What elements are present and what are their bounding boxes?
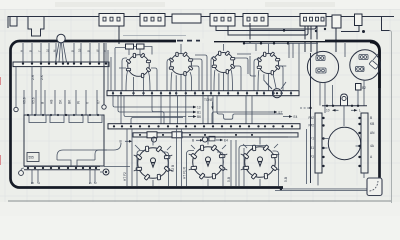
twin vertical wires to strip B xyxy=(108,50,111,91)
resistor R-a above V1 xyxy=(126,44,134,49)
long wire right of V4 xyxy=(298,43,300,90)
apron cutout 1 xyxy=(10,17,17,27)
wire from empty box down xyxy=(249,29,251,43)
lamp bracket b xyxy=(209,136,215,141)
tube socket V1 (7-pin) xyxy=(126,53,151,78)
lead fan through grommet xyxy=(56,43,67,63)
wire C2 to edge xyxy=(373,54,378,60)
bottom terminal strip E xyxy=(24,165,100,167)
label L arrow xyxy=(351,109,361,113)
wire across resistors xyxy=(115,47,152,55)
lamp mounting line xyxy=(322,105,367,107)
hookup wire curl b xyxy=(95,150,107,160)
lamp line dots xyxy=(326,105,359,107)
fuse post lead with dot xyxy=(341,26,359,32)
svg-text:5-B: 5-B xyxy=(284,177,288,182)
C1 terminal block a xyxy=(316,56,325,61)
wire hoop around V5 xyxy=(137,151,169,187)
V3-V4 link wires xyxy=(234,54,251,74)
small connector box right xyxy=(332,15,341,28)
octal socket V7 xyxy=(241,145,280,179)
svg-text:HB: HB xyxy=(50,100,54,104)
svg-text:B: B xyxy=(70,50,74,52)
svg-text:B: B xyxy=(192,139,194,143)
arrow label E7 xyxy=(268,111,283,115)
svg-text:AN: AN xyxy=(370,131,375,135)
grommet bottom-left xyxy=(19,171,24,176)
wire lamp line up to C1 xyxy=(332,85,334,106)
svg-text:10: 10 xyxy=(326,109,330,113)
V4 extra drops xyxy=(258,70,269,91)
hookup wire across with U-dip xyxy=(57,160,95,167)
tube socket V3 (7-pin) xyxy=(212,51,235,74)
svg-text:V7: V7 xyxy=(97,100,101,104)
labels B/KB/AN/A xyxy=(370,116,375,159)
bar D pilot circle a xyxy=(151,137,156,142)
C2 terminal diag xyxy=(369,60,378,69)
V2 extra drops xyxy=(171,72,192,91)
arrow label B left of V5 xyxy=(120,140,133,144)
svg-text:B: B xyxy=(120,140,122,144)
terminal box TB4 with 3 lugs xyxy=(243,14,268,27)
svg-text:E4: E4 xyxy=(294,115,298,119)
strip A lug dots xyxy=(22,62,107,64)
svg-text:B1: B1 xyxy=(310,146,314,150)
filter can C2 xyxy=(350,50,380,80)
terminal strip A xyxy=(13,62,109,67)
junction dot right feed xyxy=(309,107,311,109)
terminal box TB2 with 3 lugs xyxy=(140,14,165,27)
wafer tab 3 xyxy=(69,115,83,123)
svg-text:F#2: F#2 xyxy=(309,124,315,128)
C1 terminal block b xyxy=(316,68,326,73)
pilot lamp bulb xyxy=(342,96,346,100)
wire runs between strips B and C xyxy=(113,96,213,127)
faint inner wire above V2 xyxy=(123,35,186,37)
wafer tab 2 xyxy=(50,115,64,123)
svg-text:F#2: F#2 xyxy=(309,116,315,120)
bar D mount rect a xyxy=(147,132,157,138)
strip E lug dots xyxy=(27,167,97,169)
output strip left dots xyxy=(322,117,324,167)
junction dot bus A xyxy=(283,29,285,31)
wire between cans xyxy=(344,43,346,57)
wire block to V5 xyxy=(104,166,130,168)
svg-text:B1: B1 xyxy=(197,111,201,115)
arrow label 13 xyxy=(188,106,201,110)
svg-text:5: 5 xyxy=(89,182,93,184)
output strip right xyxy=(361,113,368,173)
wafer tab 4 xyxy=(88,115,102,123)
long wires strip A down to switch block xyxy=(32,67,41,115)
tone pointer xyxy=(212,102,214,110)
V7 lead wires xyxy=(243,137,278,186)
dashed jumper at right strip xyxy=(300,107,310,109)
V3 extra drops xyxy=(214,70,233,91)
cable grommet on top edge xyxy=(57,34,65,42)
V2 pin wires xyxy=(176,44,199,91)
wire lamp line to speaker xyxy=(343,106,345,126)
bar D dots xyxy=(139,134,253,136)
svg-text:W: W xyxy=(77,101,81,104)
svg-text:B6: B6 xyxy=(197,115,201,119)
long wire to corner box xyxy=(275,190,367,192)
tone pointer head xyxy=(211,107,213,110)
wires from TB5 lugs down xyxy=(305,26,317,55)
strip B wire ticks xyxy=(113,91,291,96)
label 10 arrow xyxy=(326,109,339,113)
chassis outline (rounded) xyxy=(11,41,380,188)
grommet with ring right of strip E xyxy=(100,169,109,175)
svg-text:E4: E4 xyxy=(224,138,228,142)
grommet left xyxy=(14,107,18,111)
svg-text:A: A xyxy=(19,50,23,52)
hookup wire loop from right xyxy=(57,143,121,160)
svg-text:KB: KB xyxy=(370,122,374,126)
svg-text:B: B xyxy=(370,116,372,120)
tube socket V4 (7-pin) xyxy=(257,52,280,75)
svg-text:13: 13 xyxy=(197,106,201,110)
output strip left xyxy=(315,113,322,173)
bottom edge junction dot xyxy=(280,188,283,191)
strip C lug dots xyxy=(113,125,293,127)
arrow label B1 xyxy=(188,111,201,115)
destination stub wires above block xyxy=(24,90,97,115)
edge remnant dashes xyxy=(177,40,200,42)
octal socket V5 xyxy=(134,146,173,180)
arrow label E4 above V6 xyxy=(216,138,228,142)
svg-text:555: 555 xyxy=(29,156,35,160)
strip C wire ticks xyxy=(114,124,292,129)
heater pair wires V5-V6 xyxy=(177,129,182,186)
V3 pin wires xyxy=(219,44,241,91)
arrow label B above V6 xyxy=(192,139,203,143)
junction dot bus C xyxy=(324,28,326,30)
bus wire upper run xyxy=(250,23,316,29)
apron cutout 2 (stepped) xyxy=(28,17,44,37)
V1 area vertical wire xyxy=(114,48,116,91)
V2 hoop wire xyxy=(167,59,172,91)
wire B2 down xyxy=(357,90,359,105)
wires V6-V7 gap xyxy=(231,140,236,186)
svg-text:5-B: 5-B xyxy=(227,177,231,182)
dial lamp bar D xyxy=(133,133,298,137)
svg-text:R2 B: R2 B xyxy=(171,165,175,172)
svg-text:B2: B2 xyxy=(362,86,366,90)
long verticals B to C xyxy=(246,96,252,124)
junction dot bus B xyxy=(315,30,317,32)
empty connector box xyxy=(172,14,201,23)
antenna lead vertical xyxy=(103,43,105,105)
svg-text:HT F1 R: HT F1 R xyxy=(183,166,187,179)
strip E drop wires with labels xyxy=(32,170,95,184)
wire left edge run xyxy=(15,67,17,107)
strip B lug dots xyxy=(112,92,292,94)
svg-text:B: B xyxy=(41,102,45,104)
terminal box TB1 with 3 lugs xyxy=(99,14,124,27)
svg-text:B: B xyxy=(28,50,32,52)
wafer tab 1 xyxy=(29,115,46,123)
V4 hoop wire xyxy=(254,59,283,91)
wire strip E to grommet xyxy=(21,168,24,171)
svg-text:V5.6: V5.6 xyxy=(32,97,36,104)
heater pair wires left of V5 xyxy=(127,129,132,186)
terminal strip B xyxy=(107,91,299,96)
fuse post box far right xyxy=(355,14,363,26)
wire small box down xyxy=(335,28,337,52)
V2-V3 link wires xyxy=(192,55,207,91)
wire strip C to E4 bus xyxy=(288,136,298,138)
svg-text:1B: 1B xyxy=(77,48,81,52)
resistor R-b above V1 xyxy=(137,44,145,49)
heavy cable along right edge xyxy=(370,42,380,88)
terminal strip C xyxy=(108,124,300,129)
svg-text:F1: F1 xyxy=(310,137,314,141)
svg-text:L: L xyxy=(359,109,361,113)
V1 extra drops xyxy=(126,70,150,91)
wire tag marks on drops xyxy=(19,48,106,52)
V3 hoop wire xyxy=(211,57,216,91)
wire resistor to socket V1 xyxy=(129,49,140,55)
heater bus with dots xyxy=(243,42,318,44)
resistor B2 xyxy=(356,84,362,91)
bus wire from TB3 to right xyxy=(216,26,305,52)
wire C1 bottom down xyxy=(320,83,325,114)
wire loop left of V4 xyxy=(250,44,256,76)
pilot lamp assembly xyxy=(341,94,348,106)
switch block top lug dots xyxy=(27,114,99,116)
C2 terminal block b xyxy=(356,67,365,72)
V5 lead wires xyxy=(135,137,171,186)
terminal box TB5 with 4 lugs xyxy=(300,14,326,27)
bar D mount rect b xyxy=(172,132,182,138)
corner box with dashed arc xyxy=(367,178,382,196)
octal socket V6 xyxy=(189,145,228,179)
wire strip bottoms down xyxy=(318,173,364,186)
wire hoop around V6 xyxy=(187,151,224,187)
dial lamp circle b on bar D xyxy=(202,137,207,142)
svg-text:10: 10 xyxy=(45,48,49,52)
svg-text:HT F2: HT F2 xyxy=(123,172,127,181)
rear apron edge line with cutouts xyxy=(8,17,394,31)
power transformer can C1 xyxy=(307,51,338,82)
arrow label E4 right xyxy=(283,115,298,119)
grommet mid xyxy=(102,105,106,109)
wire C2 bottom down xyxy=(363,80,365,106)
labels F#2/F#2/F1/B1/P2 xyxy=(309,116,315,159)
vertical feed wire right xyxy=(310,53,312,183)
wires into shield can xyxy=(266,82,286,89)
svg-text:P2: P2 xyxy=(310,155,314,159)
V1 hoop wire xyxy=(122,58,127,91)
svg-text:W: W xyxy=(95,49,99,52)
svg-text:B: B xyxy=(86,50,90,52)
band switch block outline xyxy=(24,115,104,166)
strip ticks to speaker xyxy=(324,139,360,149)
junction dot fuse lead xyxy=(362,30,365,33)
arrow label B6 xyxy=(188,115,201,119)
speaker magnet circle xyxy=(328,127,360,159)
V6 lead wires xyxy=(191,137,226,186)
long wire to E7 xyxy=(212,112,268,124)
wire from TB1 lug down xyxy=(118,26,120,44)
output strip right dots xyxy=(358,117,360,167)
shield can on strip B xyxy=(272,89,281,98)
bus wire from TB3 lug to C1 xyxy=(228,26,308,35)
inner label box 555 xyxy=(27,153,39,162)
long wire with U-dip to E4 xyxy=(217,96,283,120)
rotated wire labels row (left) xyxy=(23,97,101,104)
wire hoop around V7 xyxy=(239,146,279,187)
svg-text:B: B xyxy=(31,182,35,184)
V1 pin wires xyxy=(119,68,157,91)
heater dots xyxy=(243,42,245,44)
second feed wire right area xyxy=(306,129,308,184)
terminal box TB3 with 3 lugs xyxy=(210,14,235,27)
drop wires top edge to strip A xyxy=(23,43,106,62)
heater pair right of V4 xyxy=(289,43,293,58)
C2 terminal block a xyxy=(359,55,368,60)
svg-text:V5.6: V5.6 xyxy=(23,97,27,104)
tube socket V2 (7-pin) xyxy=(169,52,193,76)
V4 pin wires xyxy=(264,44,286,89)
